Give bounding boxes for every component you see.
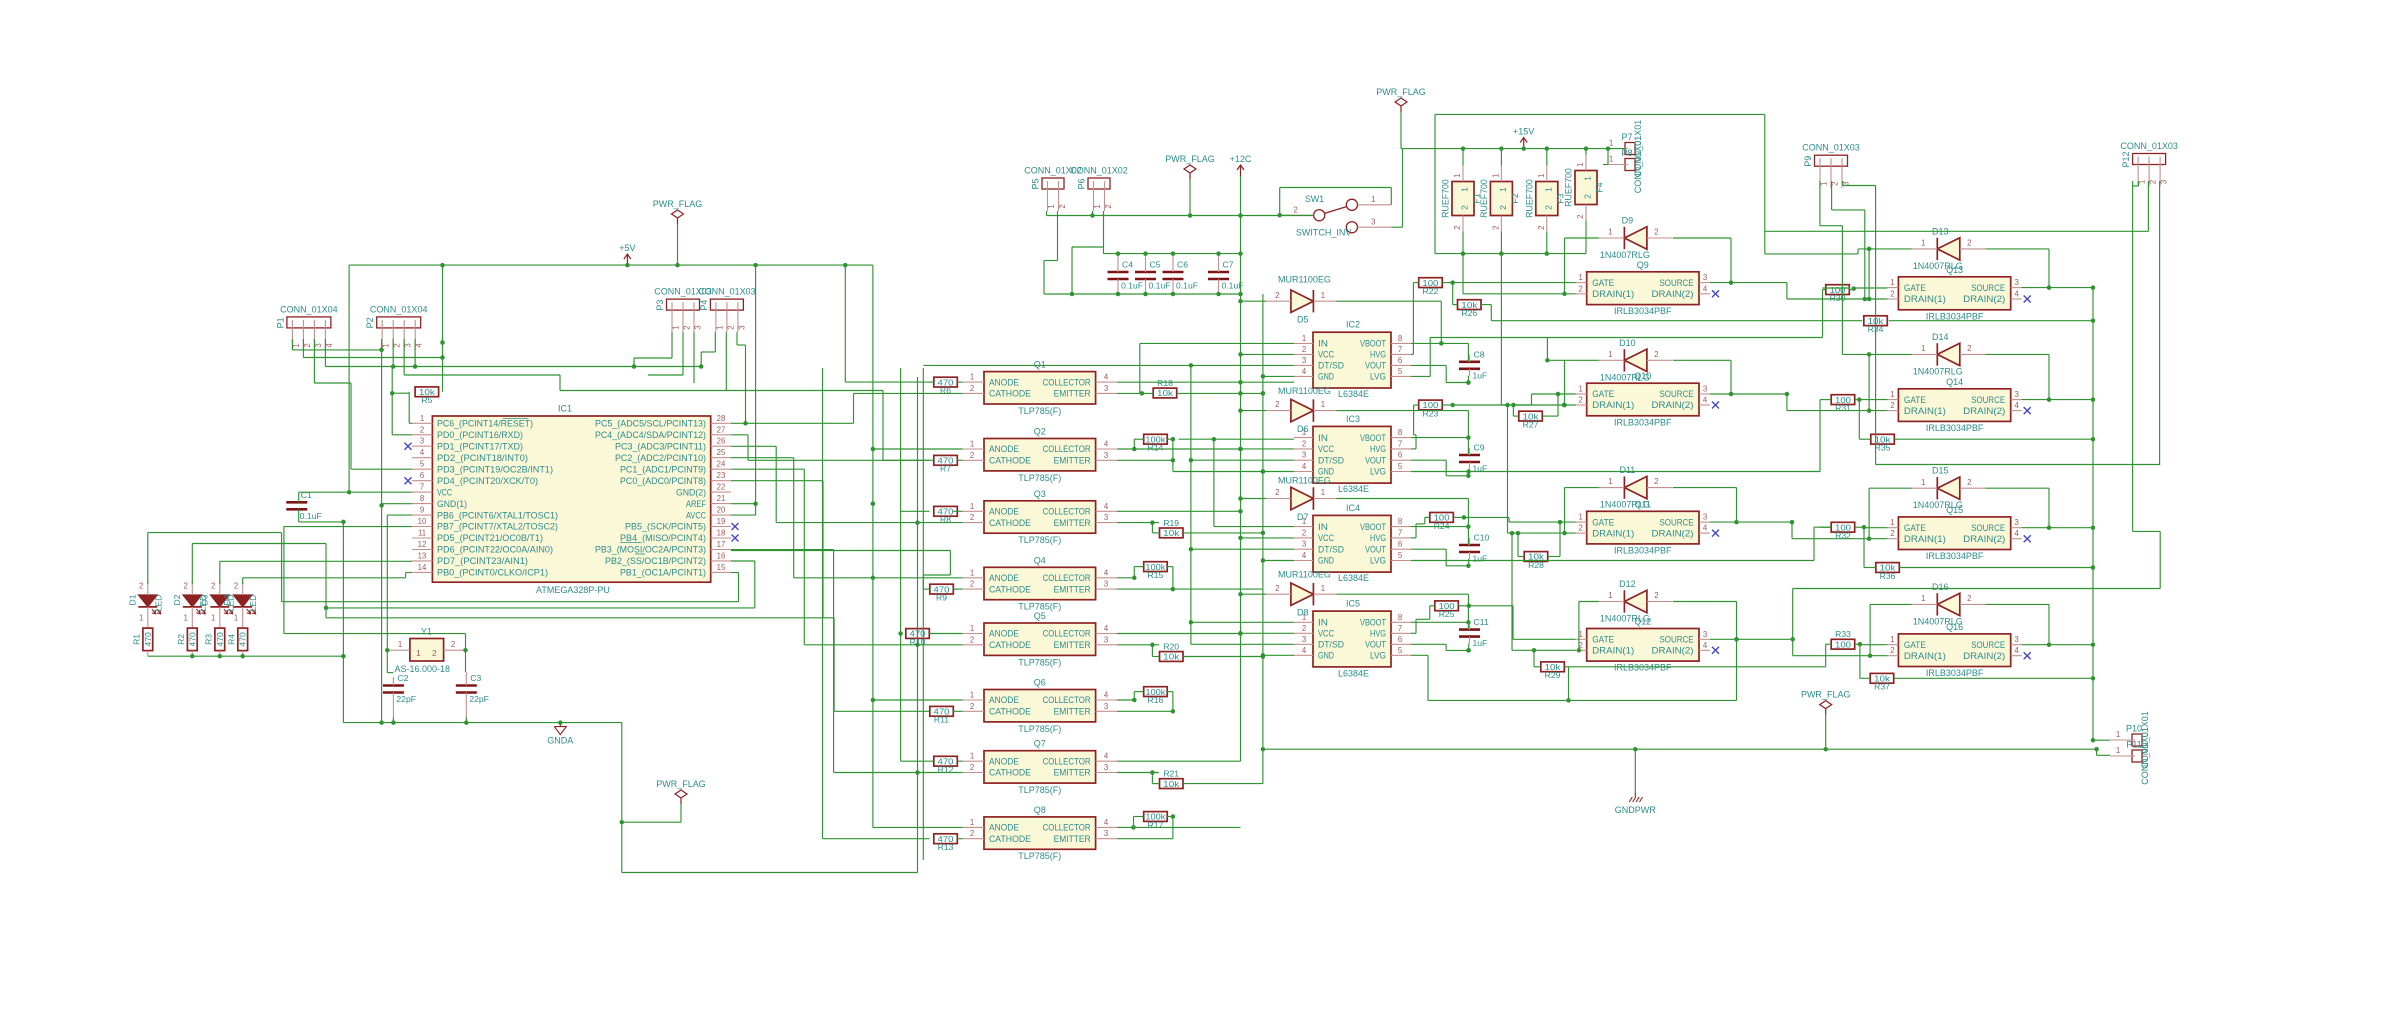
IC1 pin 21 AREF xyxy=(711,503,731,505)
svg-text:2: 2 xyxy=(970,635,974,644)
svg-text:470: 470 xyxy=(187,632,197,647)
svg-text:+12C: +12C xyxy=(1230,154,1252,164)
wire Y1.2 riser xyxy=(283,527,285,634)
wire fuse top loop xyxy=(1435,113,1765,115)
diode D5 MUR1100EG xyxy=(1291,290,1314,312)
wire D1 riser xyxy=(738,573,740,602)
svg-text:R15: R15 xyxy=(1148,570,1164,580)
wire PWR_FLAG stem xyxy=(677,224,679,265)
svg-text:DRAIN(1): DRAIN(1) xyxy=(1592,646,1634,656)
wire D anode ext xyxy=(1547,359,1599,361)
wire HVG xyxy=(1411,353,1413,355)
wire R28 left drop xyxy=(1517,533,1519,556)
wire D6 anode xyxy=(1241,410,1267,412)
no-connect IC1 pin3 xyxy=(405,443,412,450)
wire R16 left xyxy=(1134,691,1143,693)
svg-text:IRLB3034PBF: IRLB3034PBF xyxy=(1614,545,1672,555)
wire cap top lead xyxy=(1467,622,1469,629)
wire D16 anode drop xyxy=(1869,604,1871,655)
svg-text:3: 3 xyxy=(1371,217,1375,226)
svg-text:ANODE: ANODE xyxy=(989,823,1019,833)
svg-text:2: 2 xyxy=(970,384,974,393)
no-connect Q13 DRAIN(2) xyxy=(2024,296,2031,303)
optocoupler Q2 TLP785(F) xyxy=(984,439,1096,471)
junction xyxy=(1238,213,1243,218)
svg-text:PB7_(PCINT7/XTAL2/TOSC2): PB7_(PCINT7/XTAL2/TOSC2) xyxy=(437,522,558,532)
wire HVG riser xyxy=(1413,405,1415,435)
IC1 pin 19 PB5_(SCK/PCINT5) xyxy=(711,526,731,528)
wire pin23 h xyxy=(731,480,823,482)
junction xyxy=(1277,213,1282,218)
svg-text:IC2: IC2 xyxy=(1346,320,1360,330)
wire R37 out xyxy=(1894,677,2093,679)
svg-text:1: 1 xyxy=(1609,139,1613,148)
IC1 pin 17 PB3_(MOSI/OC2A/PCINT3) xyxy=(711,549,731,551)
wire P5.2 drop xyxy=(1057,211,1059,261)
svg-text:2: 2 xyxy=(1654,477,1658,486)
resistor R7 470 xyxy=(934,455,958,465)
wire LVG4 drop xyxy=(1427,655,1429,700)
svg-text:4: 4 xyxy=(1703,396,1708,405)
svg-text:4: 4 xyxy=(1104,752,1109,761)
svg-text:GNDA: GNDA xyxy=(547,736,573,746)
wire Q3 emit xyxy=(1117,522,1159,524)
svg-text:SOURCE: SOURCE xyxy=(1971,283,2005,293)
svg-text:2: 2 xyxy=(1543,205,1553,210)
svg-text:VBOOT: VBOOT xyxy=(1360,522,1387,532)
svg-text:470: 470 xyxy=(238,632,248,647)
wire C1 top to VCC xyxy=(299,491,349,493)
svg-text:AREF: AREF xyxy=(686,499,707,509)
svg-text:VCC: VCC xyxy=(1318,350,1335,360)
junction xyxy=(915,770,920,775)
wire Q12 src ext xyxy=(1737,638,1793,640)
svg-text:3: 3 xyxy=(1104,829,1108,838)
svg-text:1: 1 xyxy=(1890,390,1894,399)
junction xyxy=(1633,747,1638,752)
svg-text:1: 1 xyxy=(1921,344,1925,353)
wire D2 right xyxy=(192,543,326,545)
svg-text:470: 470 xyxy=(215,632,225,647)
wire P4.2 drop xyxy=(725,332,727,390)
IC IC5 L6384E xyxy=(1313,611,1391,667)
svg-text:7: 7 xyxy=(1398,345,1402,354)
wire P8 drop xyxy=(1607,149,1609,165)
svg-text:7: 7 xyxy=(1398,624,1402,633)
wire cap top lead xyxy=(1467,438,1469,455)
svg-text:IRLB3034PBF: IRLB3034PBF xyxy=(1926,668,1984,678)
wire fanout riser xyxy=(747,435,749,461)
wire P2.2 drop xyxy=(392,339,394,367)
wire into pin16 xyxy=(731,560,755,562)
wire p3 drop2 xyxy=(633,358,635,367)
capacitor C7 0.1uF xyxy=(1208,271,1229,274)
svg-text:PB3_(MOSI/OC2A/PCINT3): PB3_(MOSI/OC2A/PCINT3) xyxy=(595,545,706,555)
svg-text:C10: C10 xyxy=(1474,533,1490,543)
svg-text:1: 1 xyxy=(1608,228,1612,237)
svg-text:4: 4 xyxy=(1104,624,1109,633)
wire R33 riser xyxy=(1825,644,1827,667)
svg-text:1N4007RLG: 1N4007RLG xyxy=(1600,372,1650,382)
wire Q11 src ext xyxy=(1710,521,1792,523)
wire D cathode run xyxy=(1337,593,1469,595)
svg-text:22: 22 xyxy=(717,483,726,492)
wire R36 in xyxy=(1864,567,1876,569)
IC1 pin 15 PB1_(OC1A/PCINT1) xyxy=(711,571,731,573)
wire pin2 xyxy=(392,434,412,436)
wire gate jog v xyxy=(1508,517,1510,522)
svg-text:2: 2 xyxy=(1104,204,1113,208)
connector P3 CONN_01X03 xyxy=(667,299,700,310)
svg-text:IN: IN xyxy=(1318,433,1328,443)
svg-text:1: 1 xyxy=(398,640,402,649)
wire P1.2 drop xyxy=(302,339,304,358)
wire anode trunk A xyxy=(844,265,846,382)
svg-text:3: 3 xyxy=(1703,630,1707,639)
wire D to source xyxy=(2048,604,2050,644)
wire R7 feed riser xyxy=(882,391,884,461)
svg-text:TLP785(F): TLP785(F) xyxy=(1018,406,1061,416)
junction xyxy=(753,501,758,506)
svg-text:RUEF700: RUEF700 xyxy=(1564,168,1574,207)
svg-text:R37: R37 xyxy=(1874,682,1890,692)
junction xyxy=(1150,643,1155,648)
junction xyxy=(625,263,630,268)
wire P6.1 drop xyxy=(1092,211,1094,216)
wire +5V to VCC xyxy=(348,265,350,492)
svg-text:6: 6 xyxy=(1398,540,1402,549)
no-connect Q16 DRAIN(2) xyxy=(2024,652,2031,659)
wire fuse bottom link xyxy=(1500,232,1502,254)
svg-text:1: 1 xyxy=(1576,163,1585,167)
svg-text:16: 16 xyxy=(717,551,726,560)
svg-text:RUEF700: RUEF700 xyxy=(1441,179,1451,218)
svg-text:1: 1 xyxy=(970,752,974,761)
wire fanout h xyxy=(731,434,748,436)
transistor Q15 IRLB3034PBF xyxy=(1898,517,2010,550)
wire R15 drop xyxy=(1133,567,1135,578)
svg-text:ANODE: ANODE xyxy=(989,629,1019,639)
svg-text:PB2_(SS/OC1B/PCINT2): PB2_(SS/OC1B/PCINT2) xyxy=(605,556,706,566)
wire +5V rail xyxy=(349,264,873,266)
wire C1 bottom lead xyxy=(298,509,300,522)
wire fanout to cathode xyxy=(776,522,962,524)
wire R37 in xyxy=(1860,677,1870,679)
svg-text:SOURCE: SOURCE xyxy=(1660,278,1694,288)
wire P11 jog xyxy=(2096,749,2098,755)
junction xyxy=(1116,292,1121,297)
wire pin23 riser xyxy=(822,481,824,618)
wire C1 top lead xyxy=(298,492,300,502)
capacitor C1 0.1uF xyxy=(286,501,307,504)
power +12C xyxy=(1240,165,1242,176)
junction xyxy=(1132,447,1137,452)
svg-text:C1: C1 xyxy=(301,490,312,500)
wire R21 in xyxy=(1152,783,1159,785)
wire D5 anode xyxy=(1241,300,1267,302)
junction xyxy=(1143,292,1148,297)
svg-text:COLLECTOR: COLLECTOR xyxy=(1043,507,1091,517)
wire bus3 drop xyxy=(350,383,352,469)
junction xyxy=(632,364,637,369)
svg-text:9: 9 xyxy=(420,506,424,515)
transistor Q10 IRLB3034PBF xyxy=(1587,383,1699,416)
svg-text:D16: D16 xyxy=(1932,582,1949,592)
svg-text:R29: R29 xyxy=(1545,670,1561,680)
svg-text:10k: 10k xyxy=(1163,779,1180,789)
ground GNDPWR xyxy=(1634,793,1636,797)
svg-text:10k: 10k xyxy=(1163,652,1180,662)
wire R12 out xyxy=(957,760,962,762)
svg-text:R35: R35 xyxy=(1875,443,1891,453)
wire Q2 emit xyxy=(1117,459,1173,461)
junction xyxy=(1189,363,1194,368)
junction xyxy=(1577,648,1582,653)
optocoupler Q3 TLP785(F) xyxy=(984,501,1096,533)
junction xyxy=(1238,536,1243,541)
wire Q8 coll ext xyxy=(1134,826,1241,828)
svg-text:C4: C4 xyxy=(1122,260,1133,270)
svg-text:3: 3 xyxy=(1104,451,1108,460)
wire D cathode run xyxy=(1337,300,1442,302)
wire P11 pin xyxy=(2097,754,2110,756)
junction xyxy=(1516,531,1521,536)
svg-text:Q1: Q1 xyxy=(1034,360,1046,370)
wire P4.3 riser xyxy=(745,345,747,423)
svg-text:COLLECTOR: COLLECTOR xyxy=(1043,823,1091,833)
svg-text:1: 1 xyxy=(672,325,681,329)
svg-text:LVG: LVG xyxy=(1370,467,1386,477)
ground GNDA xyxy=(554,723,566,735)
connector P7 CONN_01X01 xyxy=(1625,143,1635,155)
resistor R25 100 xyxy=(1435,601,1459,611)
crystal Y1 AS-16.000-18 xyxy=(410,639,444,662)
svg-text:2: 2 xyxy=(726,325,735,329)
svg-text:Q14: Q14 xyxy=(1946,377,1963,387)
wire R10 out xyxy=(929,633,962,635)
svg-text:8: 8 xyxy=(1398,334,1402,343)
svg-text:IC4: IC4 xyxy=(1346,503,1360,513)
wire link to D13 xyxy=(1765,253,1858,255)
wire P12.1 stub xyxy=(2138,181,2140,186)
wire Q15 gate xyxy=(1864,527,1887,529)
svg-text:3: 3 xyxy=(2015,390,2019,399)
wire D4 up xyxy=(242,578,244,584)
svg-text:22pF: 22pF xyxy=(469,694,489,704)
junction xyxy=(1238,631,1243,636)
wire P2.4 drop xyxy=(414,339,416,367)
junction xyxy=(379,503,384,508)
wire P9.3 drop xyxy=(1842,181,1844,186)
svg-text:3: 3 xyxy=(1302,356,1306,365)
junction xyxy=(1171,437,1176,442)
diode D12 1N4007RLG xyxy=(1624,590,1647,612)
wire D15 anode xyxy=(1869,487,1912,489)
junction xyxy=(871,447,876,452)
wire HVG riser xyxy=(1429,606,1431,620)
junction xyxy=(379,720,384,725)
wire P6.2 drop xyxy=(1103,211,1105,247)
wire trunk D xyxy=(922,368,924,860)
svg-text:4: 4 xyxy=(1302,462,1307,471)
wire to Q14 drain xyxy=(1786,394,1788,411)
svg-text:4: 4 xyxy=(1703,524,1708,533)
svg-text:4: 4 xyxy=(415,343,424,348)
svg-text:PC4_(ADC4/SDA/PCINT12): PC4_(ADC4/SDA/PCINT12) xyxy=(595,430,706,440)
svg-text:DRAIN(2): DRAIN(2) xyxy=(1963,294,2005,304)
svg-text:1: 1 xyxy=(2116,730,2120,739)
wire HVG jog v xyxy=(1415,524,1417,538)
wire PWR_FLAG join xyxy=(622,821,681,823)
wire LVG3 riser xyxy=(1813,527,1815,560)
IC1 pin 10 PB7_(PCINT7/XTAL2/TOSC2) xyxy=(412,526,432,528)
junction xyxy=(1188,213,1193,218)
junction xyxy=(1171,587,1176,592)
wire fanout riser xyxy=(853,393,855,423)
IC1 pin 23 PC0_(ADC0/PCINT8) xyxy=(711,480,731,482)
svg-text:D11: D11 xyxy=(1619,465,1635,475)
svg-text:2: 2 xyxy=(211,582,215,591)
wire bottom rail left xyxy=(622,872,918,874)
svg-text:PB4_(MISO/PCINT4): PB4_(MISO/PCINT4) xyxy=(620,533,706,543)
wire Q8 emit xyxy=(1117,838,1173,840)
svg-text:EMITTER: EMITTER xyxy=(1054,518,1091,528)
capacitor C11 1uF xyxy=(1459,628,1480,631)
wire to R11 feed xyxy=(834,710,929,712)
wire to IC3 GND row xyxy=(1172,460,1174,471)
transistor Q9 IRLB3034PBF xyxy=(1587,272,1699,305)
junction xyxy=(2091,642,2096,647)
wire fanout h xyxy=(731,445,776,447)
junction xyxy=(1238,352,1243,357)
svg-text:CATHODE: CATHODE xyxy=(989,584,1031,594)
wire VOUT xyxy=(1411,459,1446,461)
junction xyxy=(843,263,848,268)
svg-text:2: 2 xyxy=(1453,226,1462,230)
svg-text:CATHODE: CATHODE xyxy=(989,768,1031,778)
svg-text:P1: P1 xyxy=(275,317,285,328)
svg-text:3: 3 xyxy=(2015,278,2019,287)
svg-text:7: 7 xyxy=(420,483,424,492)
wire R17 to emit xyxy=(1172,817,1174,839)
capacitor C3 22pF xyxy=(456,684,477,687)
svg-text:EMITTER: EMITTER xyxy=(1054,640,1091,650)
wire R17 drop xyxy=(1133,817,1135,828)
resistor R21 10k xyxy=(1160,779,1184,789)
connector P12 CONN_01X03 xyxy=(2133,154,2166,165)
svg-text:P5: P5 xyxy=(1031,178,1041,189)
svg-text:25: 25 xyxy=(717,448,726,457)
junction xyxy=(2094,747,2099,752)
svg-text:1: 1 xyxy=(1453,174,1462,178)
svg-text:IRLB3034PBF: IRLB3034PBF xyxy=(1614,417,1672,427)
wire D anode ext xyxy=(1579,601,1599,603)
svg-text:SOURCE: SOURCE xyxy=(1971,640,2005,650)
svg-text:COLLECTOR: COLLECTOR xyxy=(1043,629,1091,639)
svg-text:PD6_(PCINT22/OC0A/AIN0): PD6_(PCINT22/OC0A/AIN0) xyxy=(437,545,553,555)
capacitor C4 0.1uF xyxy=(1108,271,1129,274)
svg-text:PD3_(PCINT19/OC2B/INT1): PD3_(PCINT19/OC2B/INT1) xyxy=(437,464,553,474)
svg-text:4: 4 xyxy=(420,448,425,457)
wire VBOOT row xyxy=(1411,526,1468,528)
svg-text:GATE: GATE xyxy=(1904,283,1926,293)
wire D cathode run xyxy=(1337,410,1469,412)
wire R14 to emit xyxy=(1172,439,1174,460)
svg-text:1: 1 xyxy=(420,414,424,423)
wire R28 in xyxy=(1518,556,1524,558)
wire to cap bottom xyxy=(1446,649,1468,651)
svg-text:SOURCE: SOURCE xyxy=(1660,517,1694,527)
wire D cath to source xyxy=(1730,360,1732,394)
wire low rail 700 xyxy=(1428,699,1737,701)
svg-text:1: 1 xyxy=(211,614,215,623)
wire R27 out xyxy=(1542,415,1558,417)
wire P2.1 drop xyxy=(381,339,383,350)
svg-text:3: 3 xyxy=(404,343,413,347)
wire R27 riser xyxy=(1557,394,1559,416)
wire Q13 drain xyxy=(1787,298,1888,300)
wire F4 bottom xyxy=(1585,221,1587,254)
wire P5 drop2 xyxy=(1043,261,1045,295)
svg-text:8: 8 xyxy=(1398,613,1402,622)
svg-text:C8: C8 xyxy=(1474,349,1485,359)
junction xyxy=(1238,408,1243,413)
wire P6 drop2 xyxy=(1071,247,1073,294)
wire R5 row left xyxy=(392,392,409,394)
IC1 pin 20 AVCC xyxy=(711,514,731,516)
svg-text:6: 6 xyxy=(1398,635,1402,644)
junction xyxy=(1785,392,1790,397)
wire fanout riser xyxy=(775,446,777,522)
wire R8 out xyxy=(953,510,962,512)
optocoupler Q4 TLP785(F) xyxy=(984,567,1096,599)
wire Q13 gate xyxy=(1854,287,1888,289)
optocoupler Q5 TLP785(F) xyxy=(984,623,1096,655)
svg-text:D14: D14 xyxy=(1932,332,1949,342)
junction xyxy=(1545,358,1550,363)
junction xyxy=(2047,642,2052,647)
wire D1 up xyxy=(147,533,149,585)
power flag PWR_FLAG near +5V xyxy=(672,210,684,224)
wire D2 to PB2 xyxy=(326,607,755,609)
svg-text:P2: P2 xyxy=(365,317,375,328)
junction xyxy=(1606,146,1611,151)
svg-text:18: 18 xyxy=(717,529,726,538)
svg-text:2: 2 xyxy=(1491,226,1500,230)
svg-text:2: 2 xyxy=(1460,205,1470,210)
resistor R29 10k xyxy=(1541,662,1565,672)
junction xyxy=(1261,747,1266,752)
wire R14 right xyxy=(1167,438,1173,440)
resistor R27 10k xyxy=(1519,411,1543,421)
wire D to source xyxy=(2048,488,2050,528)
svg-text:P6: P6 xyxy=(1077,178,1087,189)
junction xyxy=(2047,397,2052,402)
svg-text:AVCC: AVCC xyxy=(686,510,707,520)
wire HVG jog h xyxy=(1414,434,1416,436)
wire R34 out xyxy=(1889,320,2093,322)
svg-text:1uF: 1uF xyxy=(1473,554,1488,564)
svg-text:0.1uF: 0.1uF xyxy=(300,511,322,521)
junction xyxy=(1867,408,1872,413)
wire LVG3 long xyxy=(1411,560,1814,562)
wire into pin5 xyxy=(351,468,412,470)
junction xyxy=(915,520,920,525)
wire to gate xyxy=(1513,638,1576,640)
junction xyxy=(1466,380,1471,385)
junction xyxy=(1238,447,1243,452)
svg-text:GATE: GATE xyxy=(1904,640,1926,650)
